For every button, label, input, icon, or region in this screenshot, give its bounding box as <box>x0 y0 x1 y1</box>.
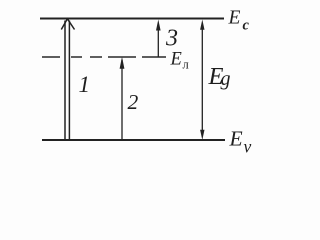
svg-text:c: c <box>243 17 250 33</box>
svg-text:v: v <box>244 136 252 156</box>
arrow 1 (double-line transition Ev to Ec) <box>61 19 74 140</box>
valence band line Ev <box>42 139 225 141</box>
arrow 3 (trap level to Ec) <box>156 20 161 58</box>
conduction band line Ec <box>40 18 224 20</box>
trap level dashed line <box>42 56 166 58</box>
svg-text:3: 3 <box>165 26 178 52</box>
arrow 2 (Ev to trap level) <box>120 57 125 140</box>
svg-text:1: 1 <box>79 72 91 97</box>
band gap arrow Eg <box>200 20 204 141</box>
svg-text:E: E <box>228 8 241 29</box>
svg-text:g: g <box>221 68 231 90</box>
svg-text:2: 2 <box>128 90 139 114</box>
svg-text:E: E <box>229 127 243 151</box>
svg-text:E: E <box>170 50 182 70</box>
svg-text:л: л <box>183 58 189 72</box>
